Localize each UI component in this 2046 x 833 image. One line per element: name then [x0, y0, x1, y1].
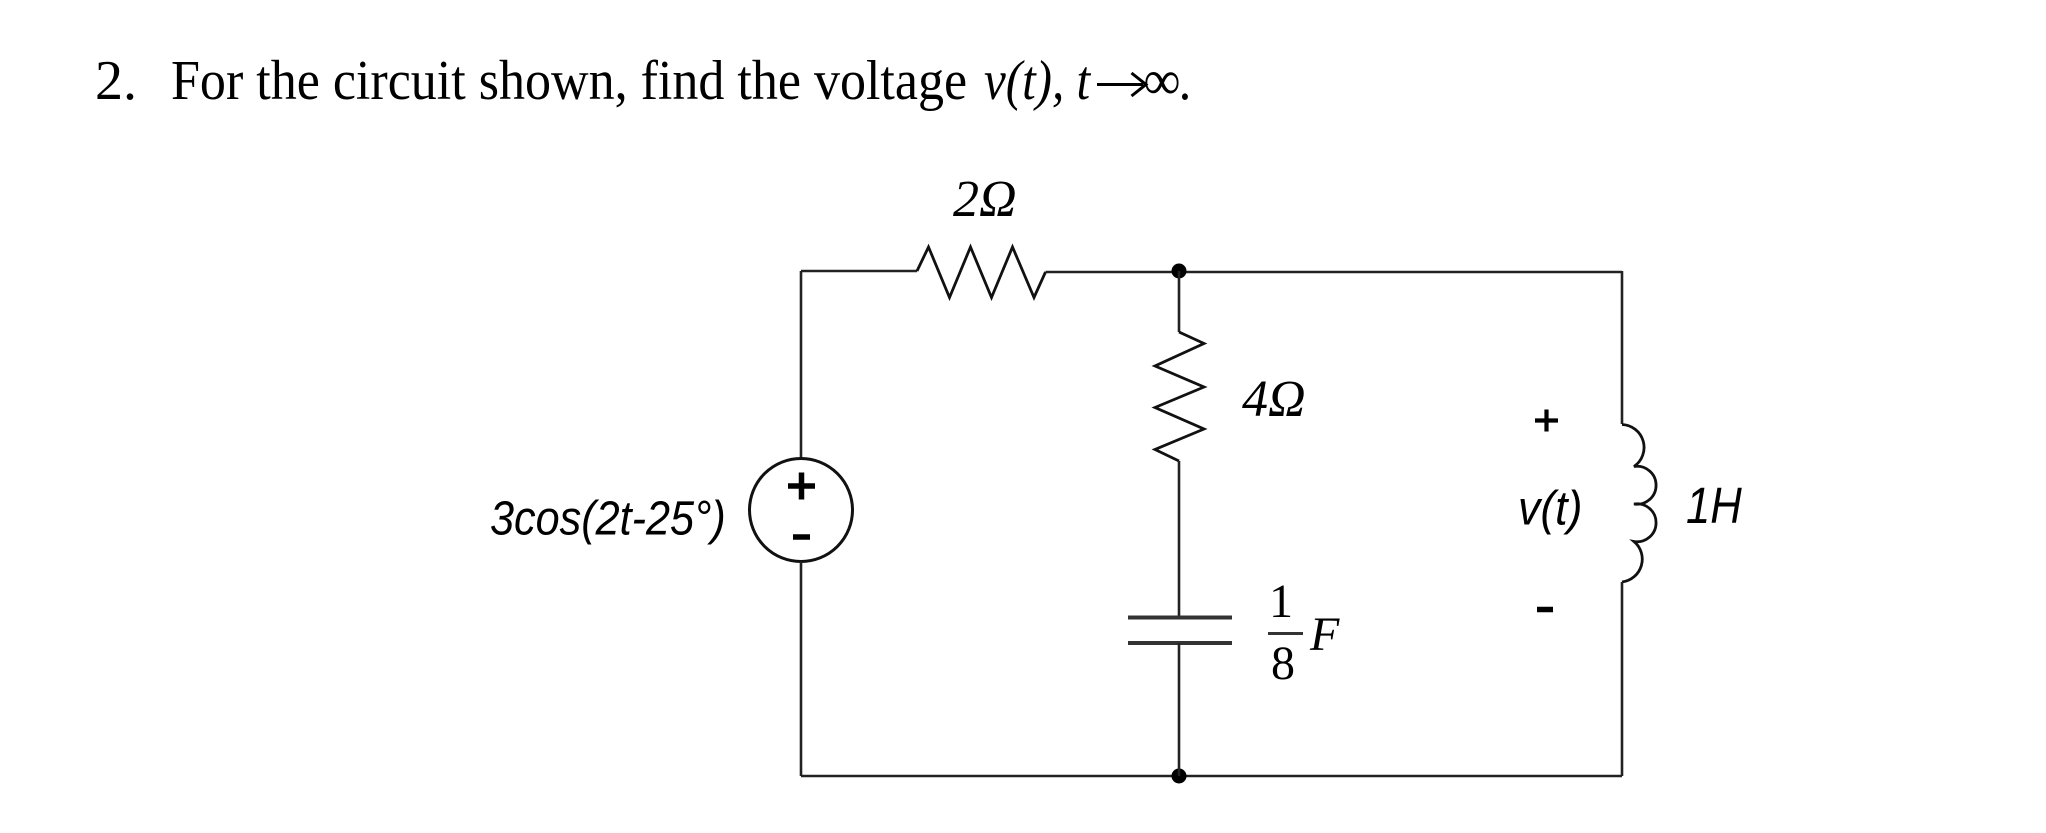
svg-text:1: 1: [1269, 575, 1293, 628]
svg-text:8: 8: [1271, 637, 1295, 690]
fraction bar: [1268, 632, 1303, 635]
inductor L 1H coil: [1622, 425, 1656, 583]
minus label for v(t): [1537, 607, 1553, 613]
svg-text:3cos(2t-25°): 3cos(2t-25°): [490, 491, 726, 545]
svg-text:1H: 1H: [1686, 478, 1742, 535]
svg-text:v(t): v(t): [1518, 481, 1582, 535]
node B (bottom junction dot): [1172, 769, 1187, 784]
title italic infinity period: [1144, 49, 1193, 113]
wire: top-left segment: [801, 270, 917, 273]
wire: right rail lower: [1621, 582, 1624, 776]
title italic v(t), t: [984, 49, 1090, 113]
plus sign inside source: [788, 473, 815, 500]
svg-text:4Ω: 4Ω: [1242, 371, 1306, 428]
wire: top-right segment: [1046, 271, 1623, 274]
wire: middle branch lower: [1178, 643, 1181, 776]
wire: left rail lower: [800, 562, 803, 777]
resistor R 2ohm zigzag: [917, 247, 1046, 298]
svg-text:2Ω: 2Ω: [953, 171, 1017, 228]
minus sign inside source: [793, 534, 810, 540]
voltage source VS circle: [750, 459, 853, 562]
resistor R 4ohm zigzag: [1155, 332, 1204, 461]
title text: [171, 49, 967, 113]
wire: left rail upper: [800, 271, 803, 459]
title number: [95, 49, 137, 113]
wire: bottom rail: [801, 775, 1622, 778]
arrow in title: [1097, 73, 1146, 96]
wire: middle branch upper: [1178, 271, 1181, 332]
capacitor C bottom plate: [1128, 641, 1232, 645]
svg-text:F: F: [1309, 608, 1340, 661]
wire: right rail upper: [1621, 271, 1624, 424]
plus label for v(t): [1535, 410, 1558, 432]
capacitor C top plate: [1128, 616, 1232, 620]
node A (top junction dot): [1172, 264, 1187, 279]
wire: middle branch mid: [1178, 461, 1181, 617]
